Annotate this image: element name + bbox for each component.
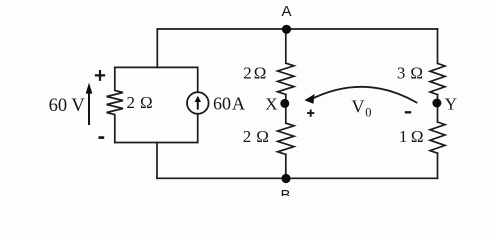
svg-text:2Ω: 2Ω (243, 64, 266, 83)
svg-text:X: X (265, 95, 277, 114)
svg-text:2Ω: 2Ω (243, 127, 269, 146)
svg-text:2Ω: 2Ω (127, 93, 153, 112)
svg-text:1Ω: 1Ω (399, 127, 424, 146)
svg-text:B: B (280, 187, 290, 196)
svg-text:60A: 60A (213, 94, 245, 114)
svg-text:60 V: 60 V (49, 96, 86, 116)
svg-text:A: A (281, 3, 291, 20)
svg-text:V: V (352, 97, 365, 117)
svg-text:0: 0 (365, 105, 371, 119)
svg-text:3Ω: 3Ω (397, 64, 423, 83)
svg-text:Y: Y (445, 95, 457, 114)
